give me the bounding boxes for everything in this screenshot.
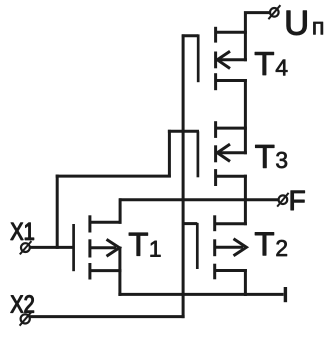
T2 channel tick source [213,264,216,280]
label X1 [11,223,34,240]
T3 channel tick bulk [214,145,217,162]
T1 gate bar [72,224,75,271]
T3 bulk lead with arrow [217,151,247,154]
T4 channel tick source [214,73,217,90]
wire T3 source through node F to T2 drain [244,175,247,226]
output terminal F [277,193,288,207]
wire X1 branch horizontal [56,175,171,178]
T4 drain lead [216,31,247,34]
label Uп [287,11,323,35]
T1 drain lead [90,221,122,224]
power terminal Uп [268,5,280,19]
wire T1 bulk/source down to ground rail [118,247,121,296]
T4 gate jog wire [182,34,198,37]
T2 source lead [215,269,247,272]
T3 channel tick drain [214,121,217,138]
ground rail [118,293,283,296]
T1 source lead [90,269,122,272]
transistor T2 (n-channel, right) [182,215,247,279]
T1 channel tick drain [88,215,91,232]
wire Uп to T4 drain/bulk [245,13,270,62]
T4 source lead [216,79,247,82]
transistor T1 (n-channel, left) [74,215,122,279]
input terminal X2 [20,312,32,326]
T4 gate bar [197,34,200,82]
label T2 [255,233,287,257]
wire X1 to T1 gate [30,246,74,249]
wire X2 horizontal [29,315,184,318]
T3 source lead [216,175,247,178]
label T3 [255,145,287,168]
T4 channel tick drain [214,27,217,43]
T3 channel tick source [214,169,217,186]
T2 gate bar [196,223,199,269]
node X1 branch riser [56,175,59,249]
transistor T4 (p-channel, top) [182,27,247,90]
wire to T3 gate [168,130,199,133]
T1 bulk lead with arrow [90,246,116,249]
T2 bulk lead with arrow [215,246,243,249]
label T4 [255,52,287,75]
T2 gate jog wire [182,222,197,225]
label X2 [11,295,34,312]
output line F [119,198,278,201]
label T1 [129,233,160,257]
T3 gate bar [197,131,200,177]
T1 channel tick bulk [88,239,91,257]
T4 channel tick bulk [214,52,217,69]
transistor T3 (p-channel) [198,121,247,186]
label F [291,191,305,210]
wire T4 source to T3 drain/bulk [244,79,247,154]
wire X2 riser to T4/T2 gates [182,34,185,318]
T2 channel tick drain [213,215,216,231]
ground rail end bar [284,287,287,302]
T4 bulk lead with arrow [217,58,247,61]
wire X1 branch riser to T3 gate level [168,130,171,178]
T2 drain lead [215,222,247,225]
wire T2 source to ground rail [244,269,247,296]
T2 channel tick bulk [213,239,216,256]
wire T1 drain up to node F [119,198,122,224]
T3 drain lead [216,127,247,130]
input terminal X1 [20,241,32,254]
T1 channel tick source [88,263,91,280]
